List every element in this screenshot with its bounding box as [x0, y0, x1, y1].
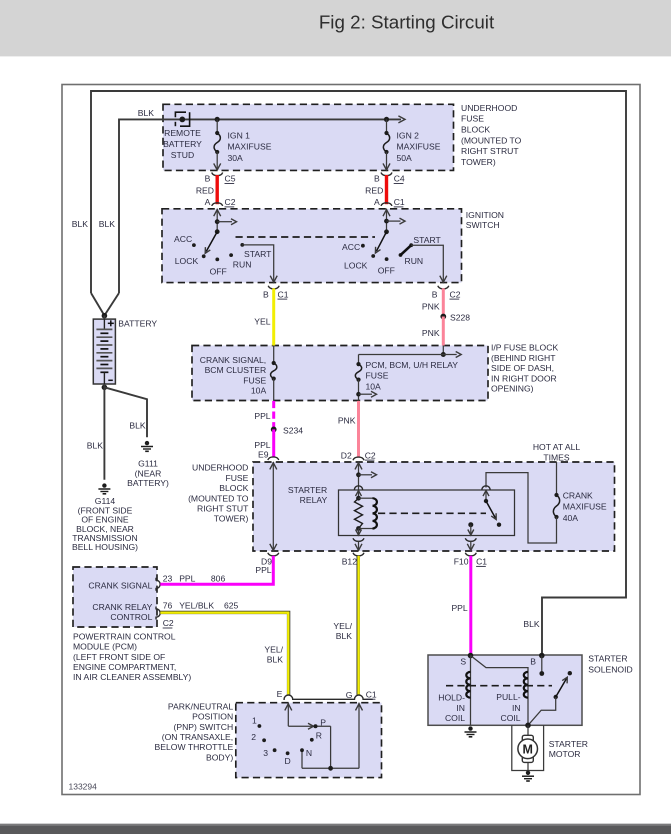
wire BLK battery negative to G111: [104, 387, 147, 437]
svg-text:CRANK RELAY: CRANK RELAY: [92, 602, 152, 612]
svg-text:FUSE: FUSE: [225, 473, 248, 483]
solenoid mechanical link dashes: [446, 685, 552, 687]
svg-text:D: D: [285, 756, 291, 766]
solenoid hold-in ground: [468, 726, 472, 730]
underhood fuse block (starter relay) box: [253, 462, 615, 551]
diagram frame: [62, 85, 640, 795]
svg-text:G111: G111: [138, 459, 158, 469]
footer bar: [0, 824, 671, 834]
svg-text:IGN 1: IGN 1: [228, 130, 251, 140]
wire BLK battery positive loop to solenoid B: [91, 91, 626, 656]
pnp P branch: [288, 725, 330, 727]
svg-text:YEL/: YEL/: [333, 621, 352, 631]
svg-text:RELAY: RELAY: [300, 495, 328, 505]
solenoid S terminal: [468, 653, 474, 659]
svg-text:HOT AT ALL: HOT AT ALL: [533, 442, 581, 452]
pnp N branch: [301, 750, 303, 768]
svg-text:PARK/NEUTRAL: PARK/NEUTRAL: [168, 701, 233, 711]
connector C2 (ignition B): [438, 286, 449, 289]
svg-text:ACC: ACC: [174, 234, 192, 244]
svg-text:PULL-: PULL-: [496, 692, 520, 702]
wire BLK battery to remote stud: [119, 119, 401, 293]
svg-text:76: 76: [163, 600, 173, 610]
ignition switch left half: [216, 209, 218, 232]
svg-text:OPENING): OPENING): [491, 384, 534, 394]
svg-text:R: R: [316, 731, 322, 741]
svg-text:START: START: [413, 235, 441, 245]
svg-text:PNK: PNK: [422, 302, 440, 312]
wire PPL dashed to S234: [272, 401, 275, 430]
svg-text:IN: IN: [456, 703, 465, 713]
wire RED left: [215, 175, 218, 204]
wire YEL/BLK B12 to pnp G: [357, 556, 360, 696]
svg-text:COIL: COIL: [501, 713, 521, 723]
svg-text:(MOUNTED TO: (MOUNTED TO: [188, 493, 249, 503]
svg-text:C1: C1: [366, 689, 377, 699]
svg-text:SWITCH: SWITCH: [466, 220, 500, 230]
svg-text:BLK: BLK: [99, 219, 116, 229]
svg-text:OFF: OFF: [378, 266, 395, 276]
svg-text:IGN 2: IGN 2: [397, 130, 420, 140]
crank maxifuse 40A feed: [556, 462, 558, 495]
svg-text:133294: 133294: [69, 782, 98, 792]
svg-text:BLK: BLK: [129, 420, 146, 430]
svg-text:FUSE: FUSE: [461, 114, 484, 124]
i/p fuse block box: [192, 346, 488, 401]
svg-text:C5: C5: [225, 174, 236, 184]
remote battery stud: [179, 117, 185, 123]
wire PPL F10 to solenoid S: [469, 556, 472, 656]
svg-text:BELOW THROTTLE: BELOW THROTTLE: [155, 742, 234, 752]
svg-text:TOWER): TOWER): [214, 514, 249, 524]
solenoid switch to motor path: [528, 697, 556, 725]
svg-text:C2: C2: [365, 450, 376, 460]
svg-text:BATTERY: BATTERY: [163, 139, 202, 149]
svg-text:FUSE: FUSE: [243, 375, 266, 385]
starter solenoid box: [428, 655, 582, 725]
svg-text:TOWER): TOWER): [461, 157, 496, 167]
ignition right START wire to C2: [411, 245, 443, 282]
svg-text:E9: E9: [258, 450, 269, 460]
svg-text:(PNP) SWITCH: (PNP) SWITCH: [174, 722, 234, 732]
relay coil inductor branch: [359, 497, 373, 499]
ignition switch right half: [386, 209, 388, 232]
pcm connector 76: [156, 607, 160, 620]
ignition lever left (to LOCK): [206, 232, 217, 252]
ignition switch box: [162, 209, 462, 283]
svg-text:BLK: BLK: [336, 631, 353, 641]
fuse IGN 2 MAXIFUSE 50A: [386, 119, 388, 133]
svg-text:MAXIFUSE: MAXIFUSE: [397, 142, 441, 152]
connector D2 cap: [353, 457, 364, 460]
svg-text:PPL: PPL: [254, 440, 270, 450]
inner box entry bump (switch): [482, 486, 490, 490]
svg-text:30A: 30A: [228, 153, 244, 163]
svg-text:RUN: RUN: [405, 256, 424, 266]
starter motor caps: [522, 735, 533, 742]
svg-text:PPL: PPL: [255, 565, 271, 575]
svg-text:MAXIFUSE: MAXIFUSE: [228, 142, 272, 152]
wire PPL to E9: [272, 429, 275, 457]
pnp connector bar with E and G bumps: [283, 695, 372, 699]
svg-text:IN AIR CLEANER ASSEMBLY): IN AIR CLEANER ASSEMBLY): [73, 672, 191, 682]
svg-text:S228: S228: [450, 312, 470, 322]
connector C4: [381, 173, 392, 176]
svg-text:CRANK: CRANK: [563, 490, 593, 500]
svg-text:RIGHT STRUT: RIGHT STRUT: [461, 146, 519, 156]
svg-text:ACC: ACC: [342, 242, 360, 252]
pcm connector 23: [156, 578, 160, 591]
svg-text:C2: C2: [225, 197, 236, 207]
svg-text:FUSE: FUSE: [366, 371, 389, 381]
svg-text:RED: RED: [365, 185, 383, 195]
svg-text:RIGHT STUT: RIGHT STUT: [197, 504, 249, 514]
svg-text:(LEFT FRONT SIDE OF: (LEFT FRONT SIDE OF: [73, 652, 165, 662]
splice S234: [271, 427, 277, 433]
svg-text:B: B: [374, 174, 380, 184]
connector B12 cup: [353, 553, 364, 556]
svg-text:YEL/: YEL/: [264, 644, 283, 654]
svg-text:PPL: PPL: [179, 574, 195, 584]
svg-text:LOCK: LOCK: [175, 256, 199, 266]
ignition left START wire to C1: [242, 245, 273, 282]
svg-text:BLK: BLK: [267, 655, 284, 665]
svg-text:RED: RED: [196, 185, 214, 195]
junction dot IGN1: [215, 117, 220, 122]
svg-text:BATTERY: BATTERY: [118, 319, 157, 329]
svg-text:(ON TRANSAXLE,: (ON TRANSAXLE,: [162, 732, 233, 742]
svg-text:POWERTRAIN CONTROL: POWERTRAIN CONTROL: [73, 631, 176, 641]
svg-text:BLOCK: BLOCK: [219, 483, 248, 493]
svg-text:(MOUNTED TO: (MOUNTED TO: [461, 135, 522, 145]
svg-text:B: B: [432, 289, 438, 299]
svg-text:BLK: BLK: [138, 108, 155, 118]
wire YEL/BLK pcm to pnp E: [160, 612, 288, 695]
pnp position dots: [258, 724, 262, 728]
svg-text:UNDERHOOD: UNDERHOOD: [192, 463, 248, 473]
svg-text:A: A: [374, 197, 380, 207]
svg-text:P: P: [320, 718, 326, 728]
svg-text:D2: D2: [341, 450, 352, 460]
junction dot IGN2: [384, 117, 389, 122]
starter motor ground: [526, 771, 530, 775]
starter motor M circle: [518, 739, 538, 759]
solenoid contact switch: [554, 695, 558, 699]
svg-text:IN: IN: [512, 703, 521, 713]
wire YEL: [272, 288, 275, 345]
svg-text:625: 625: [224, 600, 239, 610]
connector C1 (ignition B): [268, 286, 279, 289]
svg-text:S234: S234: [283, 425, 303, 435]
svg-text:SOLENOID: SOLENOID: [588, 664, 632, 674]
svg-text:IN RIGHT DOOR: IN RIGHT DOOR: [491, 373, 557, 383]
svg-text:COIL: COIL: [445, 713, 465, 723]
relay switch lever: [484, 499, 488, 503]
connector C1 (ignition A): [381, 203, 392, 206]
svg-text:STARTER: STARTER: [588, 653, 627, 663]
header bar: [0, 0, 671, 56]
svg-text:PNK: PNK: [338, 416, 356, 426]
svg-text:UNDERHOOD: UNDERHOOD: [461, 103, 517, 113]
svg-text:G: G: [346, 690, 353, 700]
svg-text:B: B: [205, 174, 211, 184]
svg-text:(NEAR: (NEAR: [135, 468, 162, 478]
wire BLK battery negative to G114: [102, 385, 108, 391]
svg-text:BATTERY): BATTERY): [127, 478, 169, 488]
svg-text:(BEHIND RIGHT: (BEHIND RIGHT: [491, 353, 556, 363]
svg-text:IGNITION: IGNITION: [466, 210, 504, 220]
wire PNK to D2: [357, 401, 360, 457]
svg-text:M: M: [522, 742, 532, 756]
svg-text:3: 3: [263, 748, 268, 758]
svg-text:23: 23: [163, 574, 173, 584]
svg-text:C1: C1: [394, 197, 405, 207]
svg-text:ENGINE COMPARTMENT,: ENGINE COMPARTMENT,: [73, 662, 176, 672]
svg-text:RUN: RUN: [233, 259, 252, 269]
starter motor wire: [527, 725, 529, 737]
fuse IGN 1 MAXIFUSE 30A: [216, 119, 218, 133]
wire PNK upper: [442, 288, 445, 316]
svg-text:PPL: PPL: [451, 603, 467, 613]
svg-text:40A: 40A: [563, 513, 579, 523]
svg-text:E: E: [277, 689, 283, 699]
svg-text:50A: 50A: [397, 153, 413, 163]
pnp switch box: [236, 703, 382, 778]
svg-text:BLOCK: BLOCK: [461, 125, 490, 135]
svg-text:Fig 2: Starting Circuit: Fig 2: Starting Circuit: [319, 11, 495, 32]
svg-text:STUD: STUD: [171, 150, 194, 160]
svg-text:YEL/BLK: YEL/BLK: [179, 600, 214, 610]
wire PNK lower: [442, 317, 445, 346]
pnp E input line: [287, 703, 289, 727]
svg-text:806: 806: [211, 574, 226, 584]
svg-text:YEL: YEL: [254, 317, 270, 327]
splice S228: [440, 314, 446, 320]
solenoid B terminal wire: [539, 653, 545, 659]
svg-text:10A: 10A: [366, 382, 382, 392]
relay F10 output line: [468, 522, 473, 527]
svg-text:BELL HOUSING): BELL HOUSING): [72, 542, 138, 552]
solenoid hold-in coil: [470, 656, 472, 726]
wire PPL pcm to D9: [160, 556, 273, 585]
battery plus sign: [108, 322, 114, 324]
svg-text:BCM CLUSTER: BCM CLUSTER: [205, 365, 267, 375]
relay D2 input line: [358, 462, 360, 498]
connector F10/C1 cup: [465, 553, 476, 556]
connector D9 cup: [268, 553, 279, 556]
svg-text:A: A: [205, 197, 211, 207]
svg-text:B12: B12: [342, 557, 358, 567]
crank signal bcm cluster fuse 10A: [273, 346, 275, 364]
battery minus sign: [108, 379, 113, 381]
ground G114: [102, 483, 106, 487]
wire RED right: [385, 175, 388, 204]
svg-text:F10: F10: [454, 557, 469, 567]
svg-text:OFF: OFF: [210, 267, 227, 277]
pcm box: [73, 567, 157, 627]
svg-text:MOTOR: MOTOR: [549, 749, 581, 759]
svg-text:START: START: [244, 249, 272, 259]
svg-text:B: B: [263, 289, 269, 299]
svg-text:HOLD-: HOLD-: [438, 692, 465, 702]
pcm bcm u/h relay fuse 10A: [442, 346, 444, 355]
svg-text:C1: C1: [278, 289, 289, 299]
svg-text:TIMES: TIMES: [543, 452, 570, 462]
relay mechanical link dashes: [378, 512, 486, 514]
svg-text:I/P FUSE BLOCK: I/P FUSE BLOCK: [491, 343, 558, 353]
svg-text:2: 2: [251, 732, 256, 742]
svg-text:C4: C4: [394, 174, 405, 184]
svg-text:BLK: BLK: [87, 440, 104, 450]
svg-text:CRANK SIGNAL: CRANK SIGNAL: [88, 581, 152, 591]
svg-text:10A: 10A: [251, 386, 267, 396]
starter motor loop: [512, 725, 544, 770]
svg-text:BODY): BODY): [206, 752, 233, 762]
svg-text:C2: C2: [163, 618, 174, 628]
solenoid output junction: [525, 723, 531, 729]
svg-text:CONTROL: CONTROL: [110, 612, 152, 622]
svg-text:MAXIFUSE: MAXIFUSE: [563, 502, 607, 512]
ignition right position dots: [361, 244, 365, 248]
svg-text:STARTER: STARTER: [288, 485, 327, 495]
ignition left position dots: [192, 243, 196, 247]
svg-text:C1: C1: [476, 557, 487, 567]
underhood fuse block (top): [163, 104, 454, 170]
svg-text:B: B: [530, 657, 536, 667]
ignition lever right (to LOCK): [376, 232, 386, 251]
connector C2 (ignition A): [212, 203, 223, 206]
svg-text:1: 1: [252, 715, 257, 725]
svg-text:CRANK SIGNAL,: CRANK SIGNAL,: [200, 355, 266, 365]
inner box entry bump (coil): [354, 486, 362, 490]
svg-text:PPL: PPL: [254, 411, 270, 421]
inner relay box: [339, 490, 515, 536]
pnp G output line: [358, 703, 360, 769]
relay coil resistor zigzag: [355, 498, 363, 528]
ignition right RUN-START lever: [400, 245, 411, 256]
battery: [102, 313, 108, 319]
ground G111: [145, 441, 149, 445]
connector C5: [212, 173, 223, 176]
ignition mechanical link dashes: [236, 236, 376, 238]
relay pass-through line E9-D9: [272, 462, 274, 551]
solenoid pull-in coil: [471, 656, 529, 726]
svg-text:REMOTE: REMOTE: [164, 128, 201, 138]
svg-text:PNK: PNK: [422, 328, 440, 338]
relay coil output to B12: [358, 529, 360, 536]
svg-text:N: N: [306, 748, 312, 758]
svg-text:MODULE (PCM): MODULE (PCM): [73, 642, 137, 652]
svg-text:STARTER: STARTER: [549, 739, 588, 749]
svg-text:C2: C2: [450, 289, 461, 299]
svg-text:S: S: [460, 657, 466, 667]
svg-text:SIDE OF DASH,: SIDE OF DASH,: [491, 363, 554, 373]
svg-text:BLK: BLK: [72, 219, 89, 229]
svg-text:POSITION: POSITION: [192, 712, 233, 722]
connector E9 cap: [268, 457, 279, 460]
feed arrow in fuse block: [398, 116, 405, 123]
svg-text:LOCK: LOCK: [344, 260, 368, 270]
svg-text:PCM, BCM, U/H RELAY: PCM, BCM, U/H RELAY: [366, 360, 459, 370]
svg-text:BLK: BLK: [523, 619, 540, 629]
